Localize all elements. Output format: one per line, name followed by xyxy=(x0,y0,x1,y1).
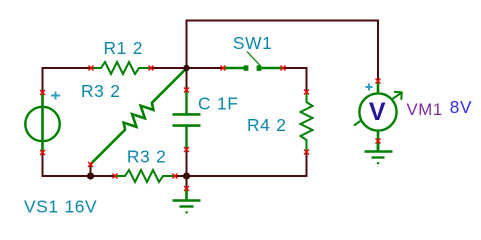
svg-text:8V: 8V xyxy=(450,97,472,117)
svg-text:VM1: VM1 xyxy=(407,100,443,119)
svg-text:R3 2: R3 2 xyxy=(81,81,121,101)
svg-text:C 1F: C 1F xyxy=(198,94,239,114)
svg-text:V: V xyxy=(369,98,386,126)
svg-text:R1 2: R1 2 xyxy=(104,38,144,58)
svg-text:R4 2: R4 2 xyxy=(247,115,287,135)
svg-text:R3 2: R3 2 xyxy=(127,146,167,166)
svg-text:SW1: SW1 xyxy=(233,33,273,53)
svg-text:VS1 16V: VS1 16V xyxy=(24,197,97,217)
